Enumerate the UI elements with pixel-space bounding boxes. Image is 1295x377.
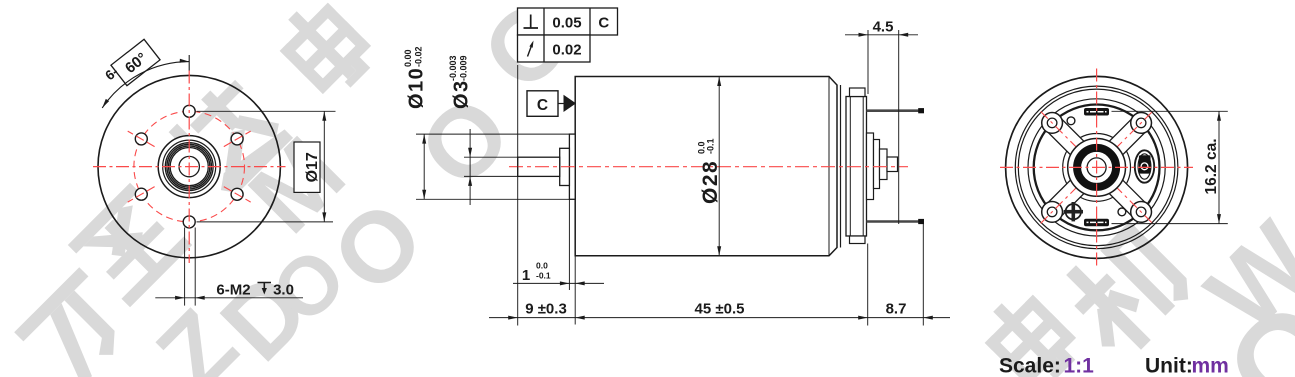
end cap top tab: [850, 88, 866, 97]
svg-text:Ø28: Ø28: [699, 160, 722, 204]
svg-text:3.0: 3.0: [273, 282, 294, 299]
dimension 4.5: [845, 19, 918, 225]
dimension diameter 17: [197, 111, 336, 222]
flange outer circle: [98, 75, 280, 257]
watermark letters right: [1185, 201, 1295, 354]
rear boss step 4: [887, 157, 898, 172]
svg-text:0.05: 0.05: [552, 15, 581, 32]
feature control frame: runout 0.02: [518, 35, 591, 62]
6- label: [102, 64, 121, 83]
feature control frame: perpendicularity 0.05 C: [518, 8, 618, 35]
front pilot boss: [569, 134, 575, 199]
arc tick at top: [188, 55, 190, 71]
svg-text:-0.1: -0.1: [536, 271, 551, 281]
small hole lower right: [1118, 208, 1126, 216]
svg-text:0.02: 0.02: [552, 42, 581, 59]
svg-text:Ø10: Ø10: [406, 67, 428, 109]
arc arrowheads: [180, 59, 190, 63]
rear boss step 2: [874, 140, 880, 189]
svg-text:Unit:: Unit:: [1145, 355, 1193, 377]
svg-text:-0.1: -0.1: [706, 138, 716, 154]
red diagonal centerlines: [1041, 112, 1153, 224]
diameter 3 label with tolerance: [448, 55, 473, 109]
four screw bosses: [1042, 113, 1063, 134]
watermark char dian: [268, 0, 381, 105]
body crimp seam line: [840, 85, 842, 248]
red horizontal centerline: [93, 166, 286, 168]
red vertical centerline: [188, 71, 190, 264]
svg-text:mm: mm: [1192, 355, 1229, 377]
svg-text:9 ±0.3: 9 ±0.3: [525, 301, 567, 318]
rear rim circle 3: [1018, 89, 1175, 246]
svg-text:1: 1: [522, 267, 530, 284]
end cap bottom tab: [850, 236, 866, 244]
extension line body front face: [574, 256, 576, 325]
bearing dark ring: [1077, 148, 1116, 187]
end cap inner edge lines: [849, 97, 851, 237]
shaft circle: [179, 156, 199, 176]
hub circle 2: [163, 140, 216, 193]
dimension diameter 3: [448, 55, 518, 205]
bearing housing opening circle: [1063, 134, 1131, 202]
svg-text:C: C: [598, 15, 609, 32]
svg-text:8.7: 8.7: [886, 301, 907, 318]
red vertical centerline rear: [1096, 69, 1098, 267]
extension line shaft tip: [517, 65, 519, 326]
rear rib inner circle: [1034, 104, 1160, 230]
60 degree boxed label: [111, 39, 160, 85]
watermark char dian right: [973, 283, 1086, 377]
watermark char zhi: [68, 183, 192, 307]
svg-text:6-M2: 6-M2: [216, 282, 250, 299]
svg-text:Ø3: Ø3: [451, 79, 473, 109]
runout symbol: [528, 43, 533, 57]
diameter 17 boxed label: [294, 142, 320, 192]
extension line wire end: [922, 224, 924, 326]
red horizontal centerline rear: [1000, 166, 1193, 168]
rear view: motor end cap: [1000, 69, 1193, 267]
diameter 28 label with tolerance: [697, 138, 723, 204]
svg-text:C: C: [537, 97, 548, 114]
dimension 6-60 degree arc: [102, 39, 189, 108]
small hole upper left: [1067, 117, 1075, 125]
phillips screw head: [1066, 204, 1081, 219]
rear rib outer circle: [1028, 99, 1165, 236]
svg-text:-0.003: -0.003: [448, 55, 458, 81]
top terminal wire: [867, 109, 922, 112]
side view: motor body: [509, 77, 924, 256]
dimension 16.2 ca.: [1112, 111, 1228, 223]
six mounting holes: [231, 133, 243, 145]
svg-text:16.2 ca.: 16.2 ca.: [1203, 138, 1220, 194]
extension line body rear face: [867, 244, 869, 326]
svg-text:45 ±0.5: 45 ±0.5: [695, 301, 745, 318]
watermark letters WZD MOTOR: [136, 289, 258, 377]
dimension 6-M2 depth 3.0: [155, 228, 303, 306]
dimension diameter 28: [697, 77, 723, 256]
svg-text:Scale:: Scale:: [999, 355, 1061, 377]
watermark char wan: [14, 267, 140, 377]
bottom terminal slot: [1084, 219, 1109, 227]
motor body outline: [575, 77, 837, 256]
shaft collar: [560, 148, 570, 185]
svg-text:-0.02: -0.02: [414, 46, 424, 67]
red axis centerline: [509, 166, 908, 168]
watermark char da: [166, 73, 293, 200]
bearing inner circle: [1087, 158, 1106, 177]
cross brace bands: [1043, 114, 1150, 221]
top terminal slot: [1084, 108, 1109, 116]
bolt circle centerline (red dashed): [134, 111, 245, 222]
connector oval: [1135, 150, 1154, 182]
rear boss step 1: [867, 133, 874, 200]
dimension 1 with tolerance: [513, 199, 604, 290]
svg-text:1:1: 1:1: [1064, 355, 1095, 377]
datum C flag: [527, 91, 576, 117]
bearing ring circles: [165, 143, 213, 191]
rear outer circle: [1006, 76, 1188, 258]
left view: motor front flange: [93, 71, 286, 264]
bottom dimensions 9 / 45 / 8.7: [489, 65, 950, 326]
svg-text:4.5: 4.5: [873, 19, 894, 36]
bearing boss circles: [1068, 139, 1126, 197]
dimension diameter 10: [403, 46, 570, 199]
scale and unit labels: [999, 355, 1229, 377]
watermark char ji right: [1048, 216, 1199, 367]
bottom terminal wire: [867, 220, 922, 223]
svg-text:0.00: 0.00: [403, 49, 413, 67]
bottom dimension line: [489, 317, 950, 319]
rear rim circle 2: [1015, 86, 1178, 249]
svg-text:Ø17: Ø17: [304, 152, 321, 182]
svg-text:0.0: 0.0: [536, 261, 548, 271]
end cap plate: [846, 97, 867, 237]
motor shaft: [518, 157, 560, 176]
perpendicularity symbol: [524, 15, 539, 29]
rear boss step 3: [880, 149, 888, 180]
svg-text:-0.009: -0.009: [459, 55, 469, 81]
diameter 10 label with tolerance: [403, 46, 428, 109]
red radial centerlines through bolt holes: [224, 131, 251, 147]
hub boss circle: [158, 136, 220, 198]
